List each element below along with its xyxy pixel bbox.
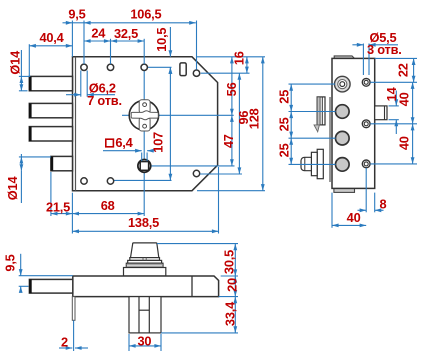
svg-text:40: 40 [397,136,412,150]
svg-text:24: 24 [91,26,106,41]
svg-text:Ø14: Ø14 [5,176,20,201]
svg-text:33,4: 33,4 [222,301,237,326]
svg-text:3 отв.: 3 отв. [367,42,402,57]
svg-text:22: 22 [395,63,410,77]
svg-text:40,4: 40,4 [39,30,64,45]
svg-text:25: 25 [276,143,291,157]
svg-text:40: 40 [347,210,361,225]
svg-text:25: 25 [276,117,291,131]
svg-text:2: 2 [61,335,68,350]
svg-text:30: 30 [137,333,151,348]
svg-text:7 отв.: 7 отв. [87,93,122,108]
svg-text:9,5: 9,5 [3,254,18,271]
svg-text:21,5: 21,5 [46,199,70,214]
svg-text:40: 40 [397,92,412,106]
svg-text:6,4: 6,4 [115,135,133,150]
svg-text:9,5: 9,5 [68,7,85,22]
svg-text:106,5: 106,5 [130,7,161,22]
svg-text:8: 8 [379,196,386,211]
svg-text:25: 25 [276,90,291,104]
svg-text:32,5: 32,5 [114,26,138,41]
svg-text:47: 47 [221,134,236,148]
svg-text:107: 107 [151,132,166,153]
svg-text:56: 56 [224,82,239,96]
svg-text:128: 128 [246,108,261,129]
svg-text:Ø14: Ø14 [7,50,22,75]
svg-text:138,5: 138,5 [128,215,159,230]
svg-text:20: 20 [225,278,240,292]
svg-text:30,5: 30,5 [222,250,237,274]
svg-text:68: 68 [101,198,115,213]
svg-text:16: 16 [232,51,247,65]
svg-text:10,5: 10,5 [154,28,169,52]
